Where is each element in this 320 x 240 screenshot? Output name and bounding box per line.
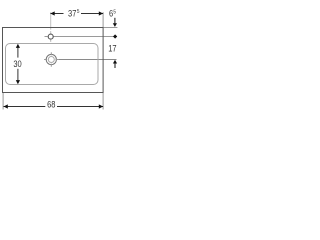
arrow 30 down [16, 80, 20, 84]
dimension line 68 [4, 106, 46, 108]
reference dot for 6.5/17 [113, 34, 117, 38]
svg-text:5: 5 [77, 8, 80, 15]
label 17 [108, 43, 117, 54]
label 37.5 [68, 8, 77, 19]
68 extension line bottom left [2, 93, 4, 110]
tap hole circle [48, 34, 53, 39]
extension line right edge up [102, 12, 104, 27]
tap hole centerline vertical (extension for 37.5 dim) [50, 12, 52, 29]
dimension 30 line upper [17, 47, 19, 57]
background [0, 0, 120, 120]
tap hole centerline tick left [45, 36, 48, 38]
drain tick east [56, 59, 59, 61]
68 extension line bottom right [102, 93, 104, 110]
drain line to right reference [59, 59, 117, 61]
label 30 [13, 58, 22, 69]
centerline dash below tap hole [50, 40, 52, 42]
label 68 [47, 99, 56, 110]
arrow left of 37.5 [50, 11, 54, 15]
svg-text:37: 37 [68, 8, 77, 19]
arrow 30 up [16, 44, 20, 48]
tap hole line to right reference [53, 36, 117, 38]
dimension 17 up arrow [113, 60, 117, 64]
drain inner circle [48, 57, 54, 63]
arrow left of 68 [4, 104, 8, 108]
arrow right of 68 [99, 104, 103, 108]
drain tick south [50, 64, 52, 67]
washbasin outer rim rectangle [3, 28, 104, 93]
arrow right of 37.5 [99, 11, 103, 15]
svg-text:5: 5 [113, 9, 116, 16]
svg-text:17: 17 [108, 43, 117, 54]
top edge extension to right [104, 27, 118, 29]
drain tick west [44, 59, 47, 61]
washbasin inner bowl rounded rectangle [6, 44, 99, 85]
drain outer circle [46, 54, 56, 64]
dimension line 37.5 [50, 13, 63, 15]
label 6.5 [109, 8, 113, 19]
dimension 30 line lower [17, 69, 19, 81]
svg-text:68: 68 [47, 99, 56, 110]
dimension 6.5 down arrow [114, 18, 116, 24]
drain tick north [50, 52, 52, 55]
svg-text:30: 30 [13, 58, 22, 69]
